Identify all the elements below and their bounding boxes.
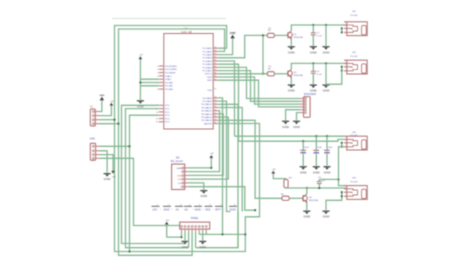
svg-text:-: -	[213, 208, 214, 211]
module MU pins	[176, 167, 188, 189]
junction	[341, 146, 343, 148]
junction	[262, 73, 264, 75]
wire Q3 emitter	[306, 202, 308, 210]
module MU buzzer outline	[172, 164, 185, 189]
connector X1	[90, 109, 95, 126]
connector PANEL outline	[180, 222, 210, 229]
wire panel pin8 drop	[205, 232, 207, 235]
svg-text:GND: GND	[288, 89, 296, 93]
svg-text:P0.3/AD11: P0.3/AD11	[202, 106, 213, 109]
svg-text:GND: GND	[177, 175, 182, 177]
resistor R4	[282, 196, 289, 200]
wire X2 pin3 to +5V	[100, 155, 114, 171]
wire buzzer pin6 net	[188, 187, 255, 211]
svg-text:T2/P1.0: T2/P1.0	[204, 74, 212, 76]
wire C1 bottom	[312, 35, 314, 46]
junction	[113, 119, 115, 121]
wire buzzer pin5 to GND	[188, 183, 204, 190]
wire +5V to panel pin1	[167, 225, 182, 238]
svg-text:P3.1/A1: P3.1/A1	[165, 85, 174, 88]
ground below X2	[104, 174, 112, 182]
svg-text:10k: 10k	[268, 28, 271, 30]
wire s4 down	[218, 108, 242, 212]
svg-text:-: -	[160, 208, 161, 211]
wire JK1 tie	[341, 28, 343, 32]
connector X1 pins	[93, 111, 100, 125]
svg-text:10uF: 10uF	[304, 147, 309, 149]
wire C5 bottom	[326, 153, 328, 166]
transistor Q1	[288, 31, 293, 39]
svg-text:P0.6/AD14: P0.6/AD14	[201, 116, 212, 119]
svg-text:EA/VPP: EA/VPP	[204, 122, 212, 125]
wire C2 bottom	[312, 73, 314, 84]
wire s2 to flag GND	[218, 101, 230, 211]
svg-text:+5V: +5V	[210, 153, 214, 155]
wire r7 to encoder pin1	[218, 67, 300, 98]
wire X2 pin2 to GND	[100, 151, 108, 173]
ground Q2 emitter	[288, 85, 296, 93]
ground encoder A	[282, 121, 290, 129]
svg-text:SDO: SDO	[164, 207, 171, 211]
svg-text:P4.1/CMPR: P4.1/CMPR	[165, 69, 177, 71]
wire C4 top	[315, 136, 317, 151]
svg-text:P1.2/AD2: P1.2/AD2	[203, 54, 213, 57]
wire buzzer pin1 to +5V	[188, 158, 211, 168]
junction	[128, 250, 130, 252]
junction	[180, 236, 182, 238]
svg-text:GND: GND	[137, 104, 145, 108]
junction	[312, 62, 314, 64]
svg-text:+5V: +5V	[112, 176, 116, 178]
wire base feed R1	[218, 35, 267, 57]
junction	[306, 187, 308, 189]
wire L3 down left bundle	[130, 115, 159, 251]
wire tap vcc	[140, 78, 158, 80]
svg-text:GND: GND	[230, 207, 236, 211]
junction	[341, 27, 343, 29]
junction	[341, 70, 343, 72]
svg-text:GND: GND	[293, 125, 301, 129]
ground panel A	[181, 241, 189, 249]
svg-text:2N2222A: 2N2222A	[309, 199, 319, 202]
svg-text:+5V: +5V	[139, 55, 143, 57]
svg-text:P0.7/AD15: P0.7/AD15	[201, 119, 212, 122]
svg-text:DATA: DATA	[176, 167, 182, 170]
ground below buzzer	[200, 191, 208, 199]
wire to GND flag	[218, 38, 232, 54]
connector PANEL pins	[181, 226, 208, 232]
net label row 1-8	[152, 204, 238, 211]
junction	[325, 62, 327, 64]
ground jack4	[322, 211, 330, 219]
wire faint top net	[112, 18, 226, 20]
wire panel row horizontal	[199, 233, 245, 235]
ground above X1	[99, 95, 104, 100]
ground C2	[310, 85, 318, 93]
ground C5	[323, 167, 331, 175]
wire s7 to buzzer pin4	[188, 117, 228, 179]
ground panel B	[199, 241, 207, 249]
wire inner loop net	[119, 29, 225, 255]
wire Q2 emitter	[290, 77, 292, 84]
+5V supply below X2	[111, 171, 116, 179]
ground left of IC	[137, 101, 145, 109]
wire Q1 emitter	[290, 39, 292, 46]
svg-text:2N2222A: 2N2222A	[294, 36, 304, 39]
svg-text:P0.1/AD9: P0.1/AD9	[203, 100, 213, 103]
ground Q1 emitter	[288, 47, 296, 55]
svg-text:GND: GND	[323, 89, 331, 93]
op-amp U1 main MCU IC1 outline	[164, 34, 213, 130]
wire L2 down left bundle	[126, 109, 189, 248]
svg-text:PANEL: PANEL	[191, 217, 199, 220]
wire C3 bottom	[302, 153, 304, 166]
wire jack4 gnd	[326, 192, 342, 210]
svg-text:P1.0/AD0: P1.0/AD0	[203, 47, 213, 50]
transistor Q2	[288, 69, 293, 77]
svg-text:BTT: BTT	[216, 207, 222, 211]
wire R3 to node	[286, 187, 307, 189]
wire JK2 tie	[341, 67, 343, 71]
wire s5 to buzzer pin2	[188, 111, 219, 172]
wire Q3 collector rail to jack4	[307, 187, 346, 189]
svg-text:10k: 10k	[268, 66, 271, 68]
wire X2 pin4 to panel	[100, 158, 180, 225]
svg-text:-: -	[203, 208, 204, 211]
svg-text:P2.0: P2.0	[165, 105, 170, 107]
svg-text:-: -	[224, 208, 225, 211]
wire s3 to panel pin5	[196, 104, 238, 247]
wire Q2 collector rail	[291, 63, 346, 69]
wire outer loop net	[115, 26, 260, 252]
svg-text:PJ-102: PJ-102	[351, 135, 359, 137]
transistor Q3	[303, 194, 308, 202]
wire jack3 sleeve down	[339, 147, 345, 180]
connector JK4 pin contacts	[344, 185, 346, 197]
wire flag gnd riser	[237, 212, 239, 248]
ground Q3 emitter	[303, 211, 311, 219]
svg-text:2N2222A: 2N2222A	[294, 74, 304, 77]
svg-text:GND: GND	[195, 207, 201, 211]
capacitor C5	[324, 150, 330, 153]
svg-text:+5V: +5V	[165, 220, 169, 222]
svg-text:P1.3/AD3: P1.3/AD3	[203, 57, 213, 60]
wire panel pin5 drop	[195, 232, 197, 248]
wire X1 pin1 to GND	[100, 100, 102, 111]
capacitor C4	[314, 150, 320, 153]
wire cap rail 1	[235, 135, 345, 137]
connector JK1 PJ-102 jack	[344, 22, 367, 36]
svg-text:P2.5: P2.5	[165, 122, 170, 124]
svg-text:GHD_M8: GHD_M8	[181, 30, 192, 34]
junction	[341, 31, 343, 33]
svg-text:P2.4: P2.4	[165, 118, 170, 120]
svg-text:+5V: +5V	[152, 207, 157, 211]
svg-text:P2.1: P2.1	[165, 109, 170, 111]
junction	[139, 81, 141, 83]
junction	[262, 34, 264, 36]
wire r5 to cap row	[218, 61, 234, 136]
svg-text:P2.2: P2.2	[165, 112, 170, 114]
capacitor C1	[311, 33, 316, 35]
svg-text:P4.0/PWRD: P4.0/PWRD	[165, 66, 177, 68]
connector X2 pins	[93, 145, 100, 159]
svg-text:PJ-102: PJ-102	[351, 15, 359, 17]
junction	[341, 195, 343, 197]
junction	[341, 66, 343, 68]
svg-text:0.1uF: 0.1uF	[316, 36, 322, 38]
wire r11 to encoder pin4	[218, 80, 300, 107]
+5V supply Q3	[271, 169, 276, 174]
ground flag GND	[230, 31, 236, 38]
wire jack2 tie to gnd	[326, 71, 342, 84]
svg-text:ENCODER: ENCODER	[304, 93, 316, 96]
wire panel pin6 drop	[198, 232, 200, 235]
wire panel pin3 drop	[188, 232, 190, 248]
svg-text:1uF: 1uF	[322, 180, 326, 182]
svg-text:0.1uF: 0.1uF	[316, 74, 322, 76]
connector JK1 pin contacts	[344, 21, 346, 33]
wire panel pin1 drop	[181, 232, 183, 237]
svg-text:GND: GND	[324, 170, 332, 174]
junction	[302, 140, 304, 142]
svg-text:GND: GND	[99, 95, 104, 97]
wire encoder pin5 gnd	[286, 110, 300, 121]
svg-text:GND: GND	[323, 50, 331, 54]
svg-text:+5V: +5V	[110, 101, 114, 103]
wire C5 top	[326, 136, 328, 151]
wire jack1 gnd drop	[325, 25, 327, 46]
connector JK3 PJ-102 jack	[344, 136, 367, 150]
capacitor C3	[300, 150, 306, 153]
wire Q1 collector rail	[291, 25, 346, 31]
wire panel pin7 gnd	[202, 232, 204, 241]
svg-text:P0.0/AD8: P0.0/AD8	[203, 97, 213, 100]
resistor R3	[284, 179, 288, 188]
connector JK3 pin contacts	[344, 135, 346, 147]
+5V supply left of IC	[139, 55, 144, 60]
ground C1	[310, 47, 318, 55]
svg-text:GND: GND	[230, 31, 236, 35]
svg-text:GND: GND	[323, 215, 331, 219]
svg-text:P4.2/RSET: P4.2/RSET	[165, 73, 177, 75]
svg-text:GND: GND	[200, 194, 208, 198]
svg-text:P0.5/AD13: P0.5/AD13	[201, 113, 212, 116]
svg-text:XTAL2: XTAL2	[165, 75, 172, 78]
svg-text:GND: GND	[310, 50, 318, 54]
wire C6 top	[318, 179, 320, 181]
IC1 right pins with numbers and names	[201, 47, 218, 126]
wire X1 pin2 to +5V	[100, 106, 112, 116]
wire C3 top	[302, 141, 304, 151]
resistor R1	[267, 33, 274, 37]
wire cap-top to jack4 pin1	[319, 179, 346, 185]
svg-text:T2EX: T2EX	[207, 77, 213, 79]
svg-text:P1.4/AD4: P1.4/AD4	[203, 60, 213, 63]
wire base	[274, 73, 288, 75]
junction	[318, 187, 320, 189]
wire JK4 tie	[341, 192, 343, 196]
junction	[254, 209, 256, 211]
wire tap gnd	[140, 85, 158, 87]
connector JK4 PJ-102 jack	[344, 186, 367, 200]
junction	[325, 24, 327, 26]
wire +5V to R3	[273, 174, 286, 179]
wire s1 down to panel row	[218, 98, 222, 235]
svg-text:P0.4/AD12: P0.4/AD12	[201, 110, 212, 113]
svg-text:MU_buzzer: MU_buzzer	[171, 160, 183, 163]
svg-text:GND: GND	[313, 170, 321, 174]
svg-text:GND: GND	[282, 125, 290, 129]
wire tap vcc2	[140, 82, 158, 84]
IC1 left pins with numbers and names	[156, 66, 177, 124]
svg-text:-: -	[193, 208, 194, 211]
wire X1 pin4	[100, 123, 119, 125]
svg-text:PJ-102: PJ-102	[351, 181, 359, 183]
svg-text:+5V: +5V	[272, 169, 276, 171]
junction	[210, 167, 212, 169]
connector ENCODER outline	[304, 97, 311, 118]
junction	[341, 142, 343, 144]
svg-text:P3.0/A0: P3.0/A0	[165, 88, 174, 91]
svg-text:GND: GND	[90, 137, 96, 140]
+5V supply above X1	[110, 101, 115, 106]
svg-text:VD2: VD2	[205, 207, 211, 211]
svg-text:P3.2/A2: P3.2/A2	[165, 81, 174, 84]
svg-text:A2: A2	[185, 207, 189, 211]
svg-text:GND: GND	[303, 215, 311, 219]
connector ENCODER pins	[300, 98, 306, 114]
wire r9 to R2	[218, 73, 268, 75]
wire L1 down left bundle	[122, 105, 186, 243]
ground C4	[313, 167, 321, 175]
wire jack2 gnd drop	[325, 63, 327, 84]
junction	[221, 233, 223, 235]
connector JK2 PJ-102 jack	[344, 60, 367, 74]
wire C2 top	[312, 63, 314, 71]
wire s6 to buzzer pin3	[188, 114, 223, 175]
svg-text:GND: GND	[300, 170, 308, 174]
svg-text:PJ-102: PJ-102	[351, 56, 359, 58]
wire cap rail 2	[239, 139, 345, 141]
wire +5V stem left of IC	[139, 59, 141, 100]
junction	[337, 178, 339, 180]
wire base	[274, 34, 288, 36]
svg-text:P1.1/AD1: P1.1/AD1	[203, 50, 213, 53]
svg-text:CLK: CLK	[178, 183, 183, 185]
wire X2 pin1	[100, 145, 130, 147]
wire bus to R2	[263, 73, 267, 75]
wire r8 to encoder pin2	[218, 71, 300, 102]
+5V supply above buzzer	[209, 153, 214, 158]
wire C1 top	[312, 25, 314, 33]
ground jack1	[322, 47, 330, 55]
connector X2	[90, 143, 95, 160]
wire panel pin2 gnd	[184, 232, 186, 241]
svg-text:GND: GND	[199, 245, 207, 249]
svg-text:A1: A1	[176, 207, 180, 211]
wire s8 base feed Q3	[218, 120, 282, 198]
wire R4 to base	[289, 197, 302, 199]
junction	[315, 135, 317, 137]
svg-text:P0.2/AD10: P0.2/AD10	[201, 103, 212, 106]
junction	[326, 135, 328, 137]
junction	[341, 191, 343, 193]
ground jack2	[322, 85, 330, 93]
wire encoder pin6 gnd	[297, 113, 300, 121]
junction	[312, 24, 314, 26]
svg-text:XTAL1: XTAL1	[165, 78, 172, 81]
svg-text:10uF: 10uF	[317, 147, 322, 149]
connector JK2 pin contacts	[344, 59, 346, 71]
junction	[128, 145, 130, 147]
wire X1 pin3	[100, 119, 115, 121]
capacitor C6	[317, 182, 322, 184]
junction	[244, 233, 246, 235]
svg-text:INT0: INT0	[207, 80, 213, 82]
svg-text:10uF: 10uF	[328, 147, 333, 149]
capacitor C2	[311, 71, 316, 73]
svg-text:P1.7/AD7: P1.7/AD7	[203, 70, 213, 73]
wire r6 to cap row	[218, 64, 238, 141]
resistor R2	[267, 72, 274, 76]
wire JK3 tie	[341, 143, 343, 147]
wire Q3 collector	[306, 188, 308, 194]
wire C4 bottom	[315, 153, 317, 166]
ground encoder B	[293, 121, 301, 129]
ground C3	[300, 167, 308, 175]
svg-text:GND: GND	[288, 50, 296, 54]
svg-text:GND: GND	[104, 177, 112, 181]
svg-text:P2.3: P2.3	[165, 115, 170, 117]
svg-text:P1.6/AD6: P1.6/AD6	[203, 66, 213, 69]
wire base bus vertical	[262, 35, 264, 73]
svg-text:-: -	[172, 208, 173, 211]
junction	[117, 123, 119, 125]
svg-text:P1.5/AD5: P1.5/AD5	[203, 63, 213, 66]
+5V supply panel	[165, 220, 170, 225]
svg-text:VDD: VDD	[207, 90, 212, 92]
svg-text:VDD: VDD	[177, 179, 182, 181]
wire C6 bottom	[318, 184, 320, 189]
wire r10 to encoder pin3	[218, 77, 300, 104]
